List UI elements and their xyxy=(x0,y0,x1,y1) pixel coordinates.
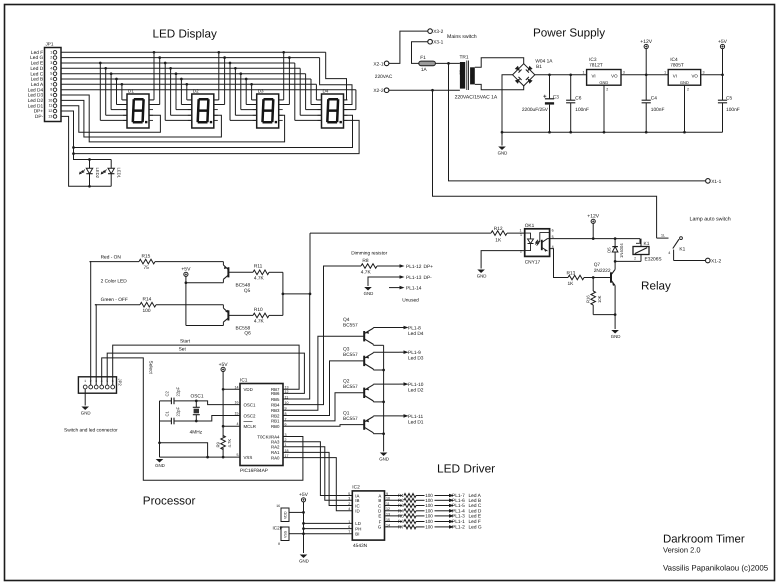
svg-text:Red - ON: Red - ON xyxy=(101,255,122,261)
bridge rectifier B1 W04 1A xyxy=(513,58,554,86)
svg-text:7: 7 xyxy=(50,82,52,86)
ground OK1 xyxy=(477,270,487,279)
resistor R5 100 to PL1-3 xyxy=(385,514,482,520)
svg-text:VSS: VSS xyxy=(244,455,253,460)
svg-text:13: 13 xyxy=(48,114,52,118)
label 2 Color LED xyxy=(101,279,128,285)
wire X3-1 to fuse xyxy=(412,42,428,64)
transistor Q6 BC558 xyxy=(223,305,253,337)
svg-text:22pF: 22pF xyxy=(176,407,181,417)
svg-text:VI: VI xyxy=(592,74,596,79)
wire R14 to Q6 xyxy=(156,304,223,306)
svg-text:Q2: Q2 xyxy=(343,379,350,385)
wire R12 to OK1 xyxy=(507,229,525,234)
svg-text:K1: K1 xyxy=(679,246,685,252)
resistor R6 100 to PL1-1 xyxy=(385,519,481,525)
svg-text:220VAC/15VAC 1A: 220VAC/15VAC 1A xyxy=(455,94,498,100)
svg-text:1N4004: 1N4004 xyxy=(619,243,624,258)
wire IC4 GND to rail xyxy=(684,85,686,132)
svg-text:D1: D1 xyxy=(128,88,134,93)
supply +5V power rail tap xyxy=(718,39,728,75)
svg-text:Relay: Relay xyxy=(641,280,671,293)
svg-text:VO: VO xyxy=(691,74,698,79)
wire Q collectors ground rail xyxy=(382,345,385,451)
svg-text:R9: R9 xyxy=(216,441,221,447)
wire IC3 GND to rail xyxy=(603,85,605,132)
svg-text:2: 2 xyxy=(606,87,608,91)
svg-text:Led C: Led C xyxy=(30,71,43,77)
svg-text:4.7K: 4.7K xyxy=(227,439,232,448)
svg-text:100nF: 100nF xyxy=(726,107,740,113)
svg-text:Led C: Led C xyxy=(469,503,482,509)
svg-text:4: 4 xyxy=(348,507,350,511)
svg-text:1L: 1L xyxy=(661,234,665,238)
svg-text:R16: R16 xyxy=(586,295,591,303)
wire Green-OFF from JP2 pin3 xyxy=(95,305,96,385)
svg-text:4: 4 xyxy=(668,251,670,255)
ground Q7 xyxy=(611,330,621,339)
wire neutral to lamp switch xyxy=(433,90,657,238)
svg-text:100nF: 100nF xyxy=(575,107,589,113)
capacitor C2 22pF xyxy=(160,387,197,405)
capacitor C1 22pF xyxy=(160,407,197,425)
svg-text:BC548: BC548 xyxy=(236,283,251,289)
svg-text:Q5: Q5 xyxy=(244,288,251,294)
7-segment display D2 xyxy=(188,88,218,128)
svg-text:1: 1 xyxy=(583,70,585,74)
regulator IC4 7805T xyxy=(664,57,704,91)
label Select xyxy=(148,361,154,375)
svg-text:Led D1: Led D1 xyxy=(28,103,44,109)
wire bus Led F (row 1) xyxy=(61,51,347,100)
svg-text:Led D3: Led D3 xyxy=(28,93,44,99)
svg-text:DP+: DP+ xyxy=(424,264,434,270)
wire RA0 to IC2 input xyxy=(283,458,352,511)
svg-text:PL1-8: PL1-8 xyxy=(408,326,421,332)
svg-text:C6: C6 xyxy=(575,95,581,101)
svg-text:PL1-12: PL1-12 xyxy=(406,264,422,270)
svg-text:VDD: VDD xyxy=(244,387,253,392)
svg-text:IC: IC xyxy=(355,503,359,508)
svg-text:OSC1: OSC1 xyxy=(244,402,257,407)
regulator IC3 7812T xyxy=(583,57,625,91)
svg-text:Led E: Led E xyxy=(469,514,482,520)
decoder IC2 4543N xyxy=(348,485,390,549)
relay coil K1 E3206S xyxy=(633,239,662,263)
section title Relay xyxy=(641,280,671,293)
resistor R10 4.7K xyxy=(253,307,283,325)
svg-text:4MHz: 4MHz xyxy=(190,429,203,435)
wire TR1 secondary to bridge xyxy=(475,58,524,68)
svg-text:+12V: +12V xyxy=(587,214,599,220)
wire PL1-13 to ground xyxy=(368,277,396,286)
label Red - ON xyxy=(101,255,122,261)
svg-text:X3-1: X3-1 xyxy=(433,40,443,46)
svg-text:5: 5 xyxy=(50,72,52,76)
wire RA2 to IC2 input xyxy=(283,447,352,501)
wire live to X1-1 xyxy=(449,63,706,180)
wire RB7 to Q4 base xyxy=(283,336,364,410)
svg-text:2: 2 xyxy=(687,87,689,91)
svg-text:2: 2 xyxy=(348,502,350,506)
svg-text:R11: R11 xyxy=(254,264,263,270)
capacitor C6 100nF xyxy=(566,75,589,132)
svg-text:9: 9 xyxy=(50,93,52,97)
wire bridge minus to ground rail xyxy=(502,75,513,132)
supply +12V power rail tap xyxy=(640,39,652,75)
svg-text:LED Display: LED Display xyxy=(153,28,217,41)
wire bus Led D (row 4) xyxy=(61,67,322,115)
svg-text:X3-2: X3-2 xyxy=(433,29,443,35)
svg-text:15: 15 xyxy=(235,412,239,416)
svg-text:1K: 1K xyxy=(568,281,575,287)
svg-text:PL1-10: PL1-10 xyxy=(408,382,424,388)
svg-text:Switch and led connector: Switch and led connector xyxy=(64,428,118,434)
wire bus Led G (row 2) xyxy=(61,56,352,104)
svg-text:+5V: +5V xyxy=(219,362,229,368)
svg-text:BC557: BC557 xyxy=(343,352,358,358)
7-segment display D3 xyxy=(253,88,283,128)
svg-text:3: 3 xyxy=(623,70,625,74)
pin PL1-9 Led D3 xyxy=(400,350,424,362)
transistor Q1 BC557 xyxy=(343,411,400,434)
svg-text:5: 5 xyxy=(348,492,350,496)
svg-text:IC4: IC4 xyxy=(670,57,678,63)
ground Q driver rail xyxy=(379,453,389,462)
svg-text:Led D3: Led D3 xyxy=(408,356,424,362)
svg-text:IC2: IC2 xyxy=(352,485,360,491)
wire RA1 to IC2 input xyxy=(283,452,352,505)
svg-text:JP1: JP1 xyxy=(46,42,54,47)
svg-text:R15: R15 xyxy=(142,253,151,259)
svg-text:D4: D4 xyxy=(323,88,329,93)
wire Start from JP2 pin6 to RB7 xyxy=(113,345,299,389)
wire RB4 to Q1 base xyxy=(283,425,364,427)
svg-text:DP-: DP- xyxy=(424,275,433,281)
svg-text:1: 1 xyxy=(520,233,522,237)
resistor R16 10K xyxy=(586,278,602,315)
connector X3-1 xyxy=(428,39,444,45)
wire bus Led B (row 6) xyxy=(61,78,322,105)
connector JP2 xyxy=(78,377,122,393)
wire DP- (JP1 pin 13) xyxy=(61,116,111,187)
svg-text:R8: R8 xyxy=(362,258,368,264)
svg-text:Lamp auto switch: Lamp auto switch xyxy=(690,217,731,223)
fuse F1 1A xyxy=(419,55,436,73)
svg-text:BC557: BC557 xyxy=(343,323,358,329)
7-segment display D1 xyxy=(123,88,153,128)
resistor R3 100 to PL1-5 xyxy=(385,503,482,509)
svg-text:OSC2: OSC2 xyxy=(244,413,257,418)
svg-text:PL1-14: PL1-14 xyxy=(406,286,422,292)
wire X2-1 to X3-2 xyxy=(389,31,428,63)
svg-text:X1-2: X1-2 xyxy=(711,258,721,264)
wire relay +12V rail xyxy=(550,237,640,244)
svg-text:PL1-2: PL1-2 xyxy=(452,525,465,531)
pin PL1-14 Unused xyxy=(389,286,422,304)
svg-text:PL1-13: PL1-13 xyxy=(406,275,422,281)
wire R15 to Q5 xyxy=(155,261,223,263)
connector X2-1 xyxy=(373,61,389,67)
microcontroller IC1 PIC16F84AP xyxy=(235,377,289,474)
label Start xyxy=(180,339,191,345)
svg-text:GND: GND xyxy=(498,151,508,156)
svg-text:VO: VO xyxy=(611,74,618,79)
svg-text:4.7K: 4.7K xyxy=(254,276,265,282)
svg-text:Led D2: Led D2 xyxy=(408,388,424,394)
7-segment display D4 xyxy=(318,88,348,128)
svg-text:Select: Select xyxy=(148,361,154,375)
resistor R1 100 to PL1-7 xyxy=(385,493,482,499)
svg-text:D2: D2 xyxy=(193,88,199,93)
connector X1-1 xyxy=(706,179,722,185)
svg-text:3: 3 xyxy=(703,70,705,74)
wire RB6 to Q3 base xyxy=(283,361,364,416)
pin PL1-8 Led D4 xyxy=(400,326,424,338)
svg-text:1: 1 xyxy=(664,70,666,74)
resistor R8 4.7K xyxy=(361,258,377,275)
svg-text:R14: R14 xyxy=(143,297,152,303)
power supply ground rail xyxy=(501,131,723,134)
svg-text:PL1-6: PL1-6 xyxy=(452,498,465,504)
svg-text:RB2: RB2 xyxy=(271,413,280,418)
svg-text:220VAC: 220VAC xyxy=(375,74,393,80)
svg-text:BI: BI xyxy=(355,532,359,537)
transistor Q3 BC557 xyxy=(343,347,400,371)
svg-text:X2-2: X2-2 xyxy=(373,88,383,94)
svg-text:LED2: LED2 xyxy=(95,168,100,179)
wire RB4 to R8 xyxy=(283,266,361,405)
capacitor C3 2200uF/25V xyxy=(522,75,559,132)
svg-text:Q1: Q1 xyxy=(343,411,350,417)
svg-text:E3206S: E3206S xyxy=(645,257,662,263)
svg-text:R3: R3 xyxy=(398,503,404,508)
svg-text:LED Driver: LED Driver xyxy=(437,462,495,476)
svg-text:1A: 1A xyxy=(421,67,428,73)
svg-text:GND: GND xyxy=(81,411,91,416)
svg-text:RB6: RB6 xyxy=(271,391,280,396)
ground PL1-13 xyxy=(364,287,374,296)
resistor R9 4.7K xyxy=(216,436,233,458)
svg-text:RB1: RB1 xyxy=(271,419,280,424)
svg-text:1: 1 xyxy=(520,229,522,233)
label 220VAC xyxy=(375,74,393,80)
pin PL1-12 DP+ xyxy=(396,264,434,270)
resistor R12 1K xyxy=(491,226,507,243)
svg-text:4543N: 4543N xyxy=(353,543,368,549)
svg-text:7812T: 7812T xyxy=(589,63,603,69)
svg-text:PL1-1: PL1-1 xyxy=(452,519,465,525)
wire RA3 to IC2 input xyxy=(283,442,352,496)
svg-text:Unused: Unused xyxy=(402,297,419,303)
connector X1-2 xyxy=(706,258,722,264)
svg-text:IC3: IC3 xyxy=(589,57,597,63)
svg-text:C3: C3 xyxy=(553,95,559,101)
svg-text:Processor: Processor xyxy=(143,495,196,508)
svg-text:+5V: +5V xyxy=(718,39,728,45)
svg-text:K1: K1 xyxy=(644,241,650,247)
resistor R4 100 to PL1-4 xyxy=(385,508,482,514)
label Green - OFF xyxy=(101,297,128,303)
svg-text:Dimming resistor: Dimming resistor xyxy=(351,251,387,257)
svg-text:PIC16F84AP: PIC16F84AP xyxy=(240,468,268,474)
svg-text:PL1-3: PL1-3 xyxy=(452,514,465,520)
svg-text:C2: C2 xyxy=(165,390,170,396)
wire bus Led C (row 5) xyxy=(61,72,322,109)
resistor R13 1K xyxy=(550,249,611,288)
svg-text:Led A: Led A xyxy=(31,82,44,88)
svg-text:2200uF/25V: 2200uF/25V xyxy=(522,107,549,113)
supply +5V IC2 xyxy=(299,492,309,553)
svg-text:OK1: OK1 xyxy=(525,223,535,229)
wire +5V to Q6 emitter xyxy=(186,283,224,326)
svg-text:+5V: +5V xyxy=(181,267,191,273)
svg-text:Power Supply: Power Supply xyxy=(533,27,605,40)
switch K1 lamp xyxy=(657,234,706,261)
svg-text:11: 11 xyxy=(49,104,53,108)
svg-text:22pF: 22pF xyxy=(176,387,181,397)
label Set xyxy=(179,347,187,353)
svg-text:4.7K: 4.7K xyxy=(361,269,372,275)
wire Set from JP2 pin5 to RB6 xyxy=(107,353,304,393)
pin PL1-13 DP- xyxy=(396,275,433,281)
resistor R2 100 to PL1-6 xyxy=(385,498,482,504)
svg-text:Vassilis Papanikolaou (c)2005: Vassilis Papanikolaou (c)2005 xyxy=(663,563,769,572)
transformer TR1 xyxy=(455,54,498,100)
svg-text:2 Color LED: 2 Color LED xyxy=(101,279,128,285)
svg-text:100: 100 xyxy=(425,514,433,519)
svg-text:100: 100 xyxy=(143,308,151,314)
svg-text:W04 1A: W04 1A xyxy=(535,58,553,64)
svg-text:MCLR: MCLR xyxy=(244,424,256,429)
svg-text:16: 16 xyxy=(235,401,239,405)
svg-text:PL1-5: PL1-5 xyxy=(452,503,465,509)
wire VSS row xyxy=(160,456,241,459)
svg-text:C1: C1 xyxy=(165,410,170,416)
supply +5V 2-color LED xyxy=(181,267,191,284)
svg-text:S$1: S$1 xyxy=(469,73,473,78)
svg-text:1: 1 xyxy=(50,50,52,54)
svg-text:12: 12 xyxy=(285,390,289,394)
svg-text:4: 4 xyxy=(237,422,239,426)
svg-text:3: 3 xyxy=(50,61,52,65)
wire bus Led A (row 7) xyxy=(61,83,322,100)
svg-text:6: 6 xyxy=(50,77,52,81)
svg-text:4: 4 xyxy=(50,66,52,70)
svg-text:GND: GND xyxy=(680,80,689,85)
capacitor C5 100nF xyxy=(718,75,740,132)
wire PH to rail xyxy=(302,527,352,530)
wire relay bottom node xyxy=(614,260,641,269)
svg-text:+12V: +12V xyxy=(640,39,652,45)
svg-text:+5V: +5V xyxy=(299,492,309,498)
ground JP2 xyxy=(81,407,91,416)
svg-text:Led F: Led F xyxy=(31,50,43,56)
svg-text:GND: GND xyxy=(611,334,621,339)
pin PL1-11 Led D1 xyxy=(400,414,424,426)
svg-text:100: 100 xyxy=(425,503,433,508)
ground power supply xyxy=(498,132,508,155)
svg-text:R6: R6 xyxy=(398,519,404,524)
wire VSS box join xyxy=(289,532,305,535)
svg-text:8: 8 xyxy=(50,88,52,92)
svg-text:10: 10 xyxy=(48,98,52,102)
svg-text:TR1: TR1 xyxy=(460,54,469,60)
wire 2-color output node xyxy=(282,272,312,315)
LED LED1 xyxy=(101,160,121,187)
wire +5V rail xyxy=(701,73,724,76)
svg-text:RB5: RB5 xyxy=(271,397,280,402)
svg-text:16: 16 xyxy=(276,504,280,508)
LED LED2 xyxy=(80,160,100,187)
svg-text:DP+: DP+ xyxy=(34,109,44,115)
svg-text:GND: GND xyxy=(477,274,487,279)
svg-text:100nF: 100nF xyxy=(651,107,665,113)
svg-text:10K: 10K xyxy=(597,295,602,303)
wire bus Led E (row 3) xyxy=(61,62,322,121)
svg-text:ID: ID xyxy=(355,509,359,514)
title block text xyxy=(663,534,769,573)
svg-text:R12: R12 xyxy=(494,226,503,232)
power supply +V rail xyxy=(535,73,587,76)
resistor R15 75 xyxy=(90,253,156,270)
wire DP+ (JP1 pin 12) xyxy=(61,111,359,161)
svg-text:R5: R5 xyxy=(398,514,404,519)
svg-text:OSC1: OSC1 xyxy=(191,394,204,400)
svg-text:D3: D3 xyxy=(258,88,264,93)
svg-text:Q6: Q6 xyxy=(244,331,251,337)
svg-text:GND: GND xyxy=(155,463,165,468)
diode D5 1N4004 xyxy=(607,239,624,262)
svg-text:Led E: Led E xyxy=(31,61,44,67)
svg-text:Q4: Q4 xyxy=(343,317,350,323)
wire RB5 to R12 node xyxy=(283,233,491,399)
svg-text:2: 2 xyxy=(50,56,52,60)
svg-text:E: E xyxy=(378,514,381,519)
svg-text:VSS: VSS xyxy=(284,530,288,538)
svg-text:IC1: IC1 xyxy=(240,377,248,383)
svg-text:Led D4: Led D4 xyxy=(408,331,424,337)
svg-text:11: 11 xyxy=(285,395,289,399)
svg-text:Led D2: Led D2 xyxy=(28,98,44,104)
svg-text:Led B: Led B xyxy=(31,77,44,83)
svg-text:Version 2.0: Version 2.0 xyxy=(663,545,701,554)
svg-text:C4: C4 xyxy=(651,95,657,101)
power pins IC2P xyxy=(273,504,290,546)
connector X3-2 xyxy=(428,29,444,35)
svg-text:8: 8 xyxy=(278,542,280,546)
section title LED Display xyxy=(153,28,217,41)
label Switch and led connector xyxy=(64,428,118,434)
wire Select from JP2 pin4 to T0CKI xyxy=(102,358,303,480)
wire Red-ON from JP2 pin2 xyxy=(90,262,91,386)
svg-text:1K: 1K xyxy=(495,237,502,243)
svg-text:P$1: P$1 xyxy=(459,69,463,74)
wire VDD box to +5V xyxy=(289,511,305,514)
transistor Q2 BC557 xyxy=(343,379,400,402)
svg-text:LED1: LED1 xyxy=(117,168,122,179)
label Lamp auto switch xyxy=(690,217,731,223)
svg-text:1: 1 xyxy=(84,379,86,383)
svg-text:Set: Set xyxy=(179,347,187,353)
wire JP2 pin1 to ground xyxy=(84,389,86,406)
wire fuse to TR1 primary xyxy=(435,62,460,65)
svg-text:BC557: BC557 xyxy=(343,416,358,422)
svg-text:RA0: RA0 xyxy=(271,455,280,460)
svg-text:R13: R13 xyxy=(567,270,576,276)
svg-text:D5: D5 xyxy=(607,247,612,253)
svg-text:GND: GND xyxy=(364,291,374,296)
